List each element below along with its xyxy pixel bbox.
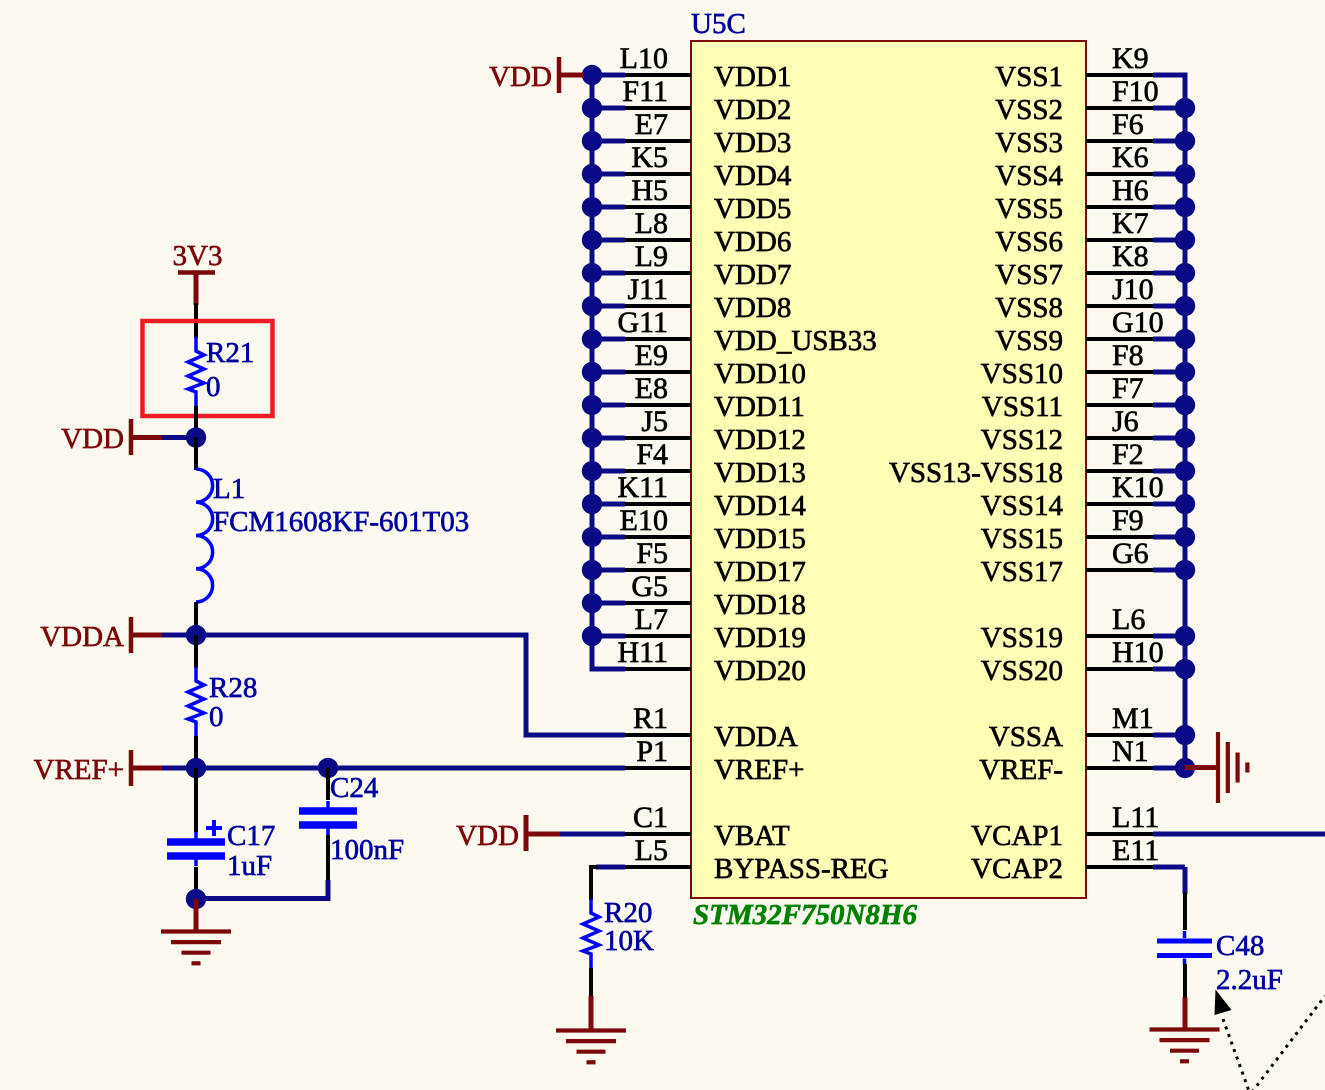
pin VSS17 (G6): [981, 537, 1185, 588]
svg-text:VDD10: VDD10: [714, 358, 806, 390]
svg-text:L10: L10: [620, 42, 668, 75]
resistor R28: [188, 667, 204, 736]
svg-text:H10: H10: [1112, 636, 1164, 669]
junction on VDD bus at J11: [582, 296, 602, 316]
pin VDD8 (J11): [592, 273, 791, 324]
junction on VDD bus at E10: [582, 527, 602, 547]
highlight box around R21: [143, 321, 273, 416]
capacitor C48 (2.2uF): [1157, 931, 1212, 966]
pin VCAP1 (L11): [971, 801, 1325, 852]
svg-text:VDD12: VDD12: [714, 424, 806, 456]
svg-text:K6: K6: [1112, 141, 1149, 174]
svg-text:C48: C48: [1216, 930, 1264, 962]
junction on VSS bus at M1: [1175, 725, 1195, 745]
junction on VDD bus at G11: [582, 329, 602, 349]
svg-text:VSS20: VSS20: [981, 655, 1063, 687]
svg-text:VSS4: VSS4: [995, 160, 1063, 192]
wire C24 top stub: [326, 768, 330, 800]
svg-text:VDD13: VDD13: [714, 457, 806, 489]
plus sign C17: [206, 820, 222, 836]
junction on VSS bus at G6: [1175, 560, 1195, 580]
wire C24 to ground node: [196, 880, 328, 899]
svg-text:VSS14: VSS14: [981, 490, 1064, 522]
pin VDDA (R1): [625, 702, 798, 753]
svg-text:R1: R1: [633, 702, 668, 735]
junction on VDD bus at L10: [582, 65, 602, 85]
svg-text:E9: E9: [635, 339, 668, 372]
svg-text:VDD6: VDD6: [714, 226, 791, 258]
node VDDA junction: [186, 625, 206, 645]
junction on VDD bus at F5: [582, 560, 602, 580]
svg-text:K9: K9: [1112, 42, 1149, 75]
svg-text:J5: J5: [641, 405, 668, 438]
svg-text:E11: E11: [1112, 834, 1159, 867]
pin VSS20 (H10): [981, 636, 1185, 687]
pin VDD20 (H11): [592, 636, 806, 687]
junction on VDD bus at H5: [582, 197, 602, 217]
svg-text:F2: F2: [1112, 438, 1144, 471]
pin VSS4 (K6): [995, 141, 1185, 192]
svg-text:VSS15: VSS15: [981, 523, 1063, 555]
junction on VSS bus at F2: [1175, 461, 1195, 481]
svg-text:VDDA: VDDA: [40, 621, 124, 653]
wire C24 bottom: [326, 835, 330, 884]
junction on VSS bus at F6: [1175, 131, 1195, 151]
junction on VDD bus at K5: [582, 164, 602, 184]
wire ground stem VREF-: [1185, 765, 1217, 770]
ground below C17: [161, 932, 231, 964]
junction on VSS bus at L6: [1175, 626, 1195, 646]
svg-text:K10: K10: [1112, 471, 1164, 504]
junction on VSS bus at F7: [1175, 395, 1195, 415]
svg-text:10K: 10K: [604, 925, 654, 957]
svg-text:K11: K11: [617, 471, 668, 504]
resistor R20: [583, 899, 599, 968]
svg-text:J11: J11: [627, 273, 668, 306]
pin VSS5 (H6): [995, 174, 1185, 225]
svg-text:K8: K8: [1112, 240, 1149, 273]
svg-text:VSS2: VSS2: [995, 94, 1063, 126]
svg-text:C17: C17: [227, 820, 275, 852]
svg-text:G11: G11: [617, 306, 668, 339]
svg-text:L7: L7: [635, 603, 668, 636]
svg-text:VDD3: VDD3: [714, 127, 791, 159]
svg-text:2.2uF: 2.2uF: [1216, 964, 1283, 996]
svg-text:H11: H11: [617, 636, 668, 669]
svg-text:L5: L5: [635, 834, 668, 867]
annotation arrowhead: [1215, 990, 1232, 1016]
junction on VDD bus at L9: [582, 263, 602, 283]
junction on VDD bus at E7: [582, 131, 602, 151]
svg-text:VDD14: VDD14: [714, 490, 806, 522]
pin VDD19 (L7): [592, 603, 806, 654]
pin VSS6 (K7): [995, 207, 1185, 258]
wire VCAP1 to sheet edge: [1153, 832, 1325, 837]
svg-text:VSS19: VSS19: [981, 622, 1063, 654]
wire BYPASS-REG to R20: [596, 865, 625, 870]
pin VSS2 (F10): [995, 75, 1185, 126]
pin VDD2 (F11): [592, 75, 791, 126]
pin VREF+ (P1): [625, 735, 804, 786]
IC U5C STM32F750N8H6 body: [691, 41, 1086, 898]
ground below R20: [556, 1031, 626, 1063]
svg-text:VDD5: VDD5: [714, 193, 791, 225]
wire 3V3 to R21: [194, 303, 198, 338]
pin VDD_USB33 (G11): [592, 306, 877, 357]
svg-text:VDDA: VDDA: [714, 721, 798, 753]
svg-text:F11: F11: [622, 75, 668, 108]
power port VDD (top): [489, 57, 592, 93]
svg-text:E10: E10: [620, 504, 668, 537]
wire VDD node to L1: [194, 438, 198, 471]
pin VSS15 (F9): [981, 504, 1185, 555]
svg-text:VDD11: VDD11: [714, 391, 805, 423]
svg-text:VDD18: VDD18: [714, 589, 806, 621]
svg-text:1uF: 1uF: [227, 850, 272, 882]
svg-text:FCM1608KF-601T03: FCM1608KF-601T03: [213, 506, 469, 538]
junction on VDD bus at L7: [582, 626, 602, 646]
pin VSS10 (F8): [981, 339, 1185, 390]
junction on VSS bus at G10: [1175, 329, 1195, 349]
junction on VDD bus at E9: [582, 362, 602, 382]
pin VSS11 (F7): [982, 372, 1185, 423]
wire ground stem R20: [589, 996, 594, 1029]
pin VDD10 (E9): [592, 339, 806, 390]
junction on VSS bus at H6: [1175, 197, 1195, 217]
pin VSS7 (K8): [995, 240, 1185, 291]
wire VREF+ to pin P1: [196, 766, 625, 771]
pin VBAT (C1): [625, 801, 790, 852]
pin VDD18 (G5): [592, 570, 806, 621]
svg-text:P1: P1: [636, 735, 668, 768]
svg-text:F6: F6: [1112, 108, 1144, 141]
svg-text:VDD4: VDD4: [714, 160, 792, 192]
wire ground stem C17: [194, 899, 199, 930]
pin VDD17 (F5): [592, 537, 806, 588]
svg-text:M1: M1: [1112, 702, 1154, 735]
svg-text:VSS9: VSS9: [995, 325, 1063, 357]
svg-text:G5: G5: [631, 570, 668, 603]
pin VSS19 (L6): [981, 603, 1185, 654]
junction on VDD bus at E8: [582, 395, 602, 415]
svg-text:VDD: VDD: [489, 61, 552, 93]
wire C48 to ground: [1183, 964, 1187, 999]
wire L1 to VDDA node: [194, 602, 198, 636]
dotted line left segment: [1223, 1019, 1249, 1090]
svg-text:VSS3: VSS3: [995, 127, 1063, 159]
svg-text:BYPASS-REG: BYPASS-REG: [714, 853, 889, 885]
svg-text:J6: J6: [1112, 405, 1139, 438]
wire VDD left bus: [592, 75, 625, 669]
svg-text:L9: L9: [635, 240, 668, 273]
pin VDD14 (K11): [592, 471, 806, 522]
svg-text:VDD_USB33: VDD_USB33: [714, 325, 877, 357]
svg-text:VSS5: VSS5: [995, 193, 1063, 225]
svg-text:F4: F4: [636, 438, 668, 471]
svg-text:VDD2: VDD2: [714, 94, 791, 126]
pin VDD11 (E8): [592, 372, 805, 423]
pin VDD12 (J5): [592, 405, 806, 456]
junction on VSS bus at K8: [1175, 263, 1195, 283]
svg-text:G6: G6: [1112, 537, 1149, 570]
svg-text:N1: N1: [1112, 735, 1149, 768]
junction on VDD bus at K11: [582, 494, 602, 514]
svg-text:U5C: U5C: [691, 8, 746, 40]
svg-text:F10: F10: [1112, 75, 1159, 108]
svg-text:VSS13-VSS18: VSS13-VSS18: [889, 457, 1063, 489]
ground below C48: [1150, 1030, 1220, 1062]
svg-text:C24: C24: [330, 772, 379, 804]
svg-text:VSS10: VSS10: [981, 358, 1063, 390]
pin VSS9 (G10): [995, 306, 1185, 357]
inductor L1: [196, 469, 213, 602]
dotted line right segment: [1252, 996, 1325, 1090]
svg-text:VDD20: VDD20: [714, 655, 806, 687]
pin VSS13-VSS18 (F2): [889, 438, 1185, 489]
junction on VSS bus at N1: [1175, 758, 1195, 778]
junction on VSS bus at J6: [1175, 428, 1195, 448]
junction on VSS bus at K10: [1175, 494, 1195, 514]
pin VDD15 (E10): [592, 504, 806, 555]
svg-text:F7: F7: [1112, 372, 1144, 405]
node VDD junction: [186, 427, 206, 447]
svg-text:F8: F8: [1112, 339, 1144, 372]
svg-text:E8: E8: [635, 372, 668, 405]
svg-text:VSSA: VSSA: [989, 721, 1063, 753]
wire VDDA to pin R1: [196, 635, 625, 735]
svg-text:VDD1: VDD1: [714, 61, 791, 93]
svg-text:G10: G10: [1112, 306, 1164, 339]
pin VDD4 (K5): [592, 141, 792, 192]
capacitor C17 (polarized 1uF): [167, 832, 225, 866]
junction on VDD bus at F11: [582, 98, 602, 118]
svg-text:VCAP2: VCAP2: [971, 853, 1063, 885]
wire R20 to ground: [589, 968, 593, 998]
pin VDD7 (L9): [592, 240, 791, 291]
svg-text:VDD17: VDD17: [714, 556, 806, 588]
power port VDDA: [40, 617, 196, 653]
wire ground stem C48: [1183, 997, 1188, 1028]
pin VSS14 (K10): [981, 471, 1185, 522]
pin BYPASS-REG (L5): [625, 834, 889, 885]
junction on VSS bus at J10: [1175, 296, 1195, 316]
svg-text:L6: L6: [1112, 603, 1145, 636]
wire VDDA node to R28: [194, 635, 198, 668]
svg-text:K5: K5: [631, 141, 668, 174]
pin VSS1 (K9): [995, 42, 1185, 93]
wire VCAP2 to C48: [1183, 867, 1188, 894]
svg-text:VSS12: VSS12: [981, 424, 1063, 456]
wire VREF+ node to C17: [194, 768, 198, 832]
svg-text:VREF+: VREF+: [714, 754, 804, 786]
ground at VREF- (rotated): [1218, 732, 1247, 803]
svg-text:J10: J10: [1112, 273, 1154, 306]
svg-text:VDD: VDD: [456, 820, 519, 852]
svg-text:L8: L8: [635, 207, 668, 240]
pin VCAP2 (E11): [971, 834, 1185, 885]
wire R28 to VREF+ node: [194, 736, 198, 768]
svg-text:E7: E7: [635, 108, 668, 141]
junction on VSS bus at H10: [1175, 659, 1195, 679]
svg-text:C1: C1: [633, 801, 668, 834]
svg-text:L1: L1: [213, 473, 245, 505]
power port VREF+: [34, 750, 196, 786]
junction on VSS bus at K7: [1175, 230, 1195, 250]
junction on VSS bus at F8: [1175, 362, 1195, 382]
svg-text:F9: F9: [1112, 504, 1144, 537]
wire C17 to ground node: [194, 867, 198, 899]
junction on VDD bus at L8: [582, 230, 602, 250]
svg-text:0: 0: [206, 371, 221, 403]
capacitor C24 (100nF): [299, 801, 357, 835]
svg-text:VSS17: VSS17: [981, 556, 1063, 588]
junction on VSS bus at F9: [1175, 527, 1195, 547]
junction on VDD bus at F4: [582, 461, 602, 481]
svg-text:R21: R21: [206, 337, 254, 369]
svg-text:100nF: 100nF: [330, 834, 404, 866]
node VREF+ junction: [186, 758, 206, 778]
svg-text:VSS1: VSS1: [995, 61, 1063, 93]
wire VSS right bus: [1153, 75, 1185, 768]
wire R21 to VDD node: [194, 406, 198, 438]
pin VSS8 (J10): [995, 273, 1185, 324]
svg-text:0: 0: [209, 701, 224, 733]
pin VDD13 (F4): [592, 438, 806, 489]
resistor R21: [188, 337, 204, 406]
svg-text:VDD: VDD: [61, 423, 124, 455]
node ground junction: [186, 889, 206, 909]
svg-text:K7: K7: [1112, 207, 1149, 240]
pin VSSA (M1): [989, 702, 1185, 753]
power port VDD (left): [61, 419, 196, 455]
svg-text:VSS6: VSS6: [995, 226, 1063, 258]
power port 3V3: [173, 240, 223, 305]
svg-text:F5: F5: [636, 537, 668, 570]
svg-text:VCAP1: VCAP1: [971, 820, 1063, 852]
svg-text:VSS7: VSS7: [995, 259, 1063, 291]
svg-text:H5: H5: [631, 174, 668, 207]
svg-text:VREF-: VREF-: [979, 754, 1063, 786]
node C24 junction: [318, 758, 338, 778]
svg-text:L11: L11: [1112, 801, 1159, 834]
svg-text:VDD15: VDD15: [714, 523, 806, 555]
pin VSS3 (F6): [995, 108, 1185, 159]
svg-text:STM32F750N8H6: STM32F750N8H6: [693, 899, 917, 931]
svg-text:VREF+: VREF+: [34, 754, 124, 786]
svg-text:H6: H6: [1112, 174, 1149, 207]
pin VDD3 (E7): [592, 108, 791, 159]
junction on VSS bus at K6: [1175, 164, 1195, 184]
pin VDD5 (H5): [592, 174, 791, 225]
svg-text:VDD19: VDD19: [714, 622, 806, 654]
junction on VSS bus at F10: [1175, 98, 1195, 118]
junction on VDD bus at G5: [582, 593, 602, 613]
pin VSS12 (J6): [981, 405, 1185, 456]
pin VDD6 (L8): [592, 207, 791, 258]
svg-text:3V3: 3V3: [173, 240, 223, 272]
svg-text:VDD8: VDD8: [714, 292, 791, 324]
svg-text:VBAT: VBAT: [714, 820, 790, 852]
svg-text:R28: R28: [209, 672, 257, 704]
svg-text:VSS8: VSS8: [995, 292, 1063, 324]
svg-text:VDD7: VDD7: [714, 259, 791, 291]
junction on VDD bus at J5: [582, 428, 602, 448]
power port VDD (VBAT): [456, 815, 625, 852]
pin VREF- (N1): [979, 735, 1185, 786]
pin VDD1 (L10): [592, 42, 791, 93]
svg-text:VSS11: VSS11: [982, 391, 1063, 423]
